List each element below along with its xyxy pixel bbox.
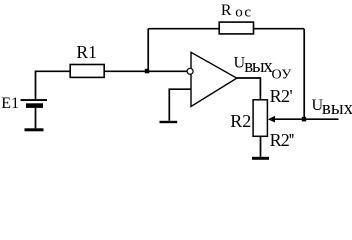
ground bar under op-amp: [160, 121, 178, 123]
wire R1 output to op-amp inverting input: [104, 70, 187, 72]
node A (junction of R1, Roc, op-amp input): [145, 69, 149, 74]
wire feedback right vertical down to output node: [303, 29, 305, 120]
svg-text:E1: E1: [1, 95, 19, 112]
wire feedback left vertical: [147, 29, 149, 72]
resistor Roc: [219, 22, 253, 34]
potentiometer R2: [253, 100, 267, 137]
wire op-amp output to R2 top: [237, 78, 261, 100]
svg-text:R1: R1: [76, 42, 96, 62]
svg-text:R2: R2: [230, 111, 251, 131]
node B (junction of feedback and wiper output): [302, 117, 306, 122]
inverting input bubble: [187, 68, 193, 74]
resistor R1: [70, 65, 104, 78]
wire R2 bottom to ground: [260, 137, 262, 157]
svg-text:ос: ос: [235, 5, 252, 21]
op-amp U1 triangle: [191, 52, 237, 106]
svg-text:вых: вых: [322, 98, 352, 119]
ground bar under R2: [252, 157, 269, 160]
svg-text:R2'': R2'': [270, 130, 295, 150]
svg-text:R: R: [221, 2, 232, 19]
wire from E1 top to R1 input: [36, 71, 71, 100]
svg-text:R2': R2': [270, 86, 293, 106]
ground bar under E1: [25, 128, 44, 131]
svg-text:ОУ: ОУ: [272, 68, 292, 83]
wire feedback top horizontal: [148, 28, 304, 30]
wiper arrow of R2: [272, 118, 339, 120]
battery short thick plate: [26, 103, 43, 108]
source E1 battery: long thin plate: [21, 99, 48, 101]
wire non-inverting input to ground: [169, 89, 191, 121]
wire battery minus to ground: [35, 108, 37, 128]
svg-text:вых: вых: [244, 56, 273, 77]
